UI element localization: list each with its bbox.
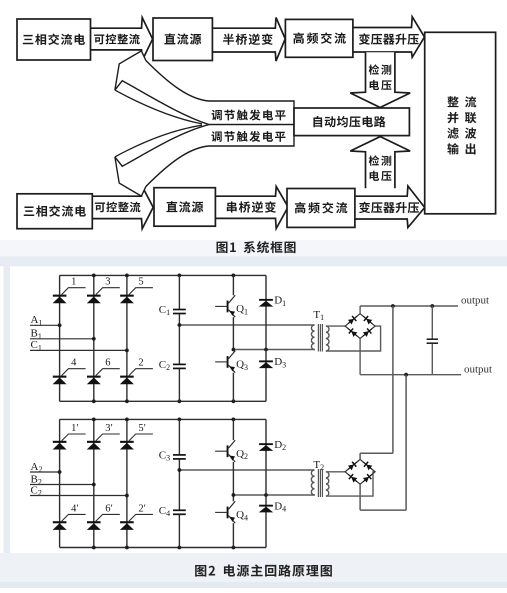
label 检测 (bottom arrow) [369, 155, 379, 165]
wire capacitor column (bridge 1) [178, 275, 180, 309]
svg-text:5′: 5′ [138, 423, 146, 434]
wire top rail (bridge 1) [60, 274, 266, 276]
transistor Q4 [215, 501, 248, 523]
wire thyristor leg 2 column (bridge 1) [93, 275, 95, 401]
ribbon arrow 调节触发电平 (to bottom rectifier) [115, 125, 294, 197]
label 自动均压电路 [313, 116, 322, 127]
bottom band [0, 582, 507, 588]
svg-text:1′: 1′ [71, 423, 79, 434]
label 检测 (top arrow) [369, 64, 379, 74]
label 并联 (tall box) [448, 112, 459, 123]
capacitor C2 [173, 363, 186, 365]
wire IGBT column (bridge 2) [232, 419, 234, 440]
svg-text:output: output [464, 364, 492, 376]
transistor Q2 [215, 440, 248, 462]
ribbon fold line (upper arrow) [115, 90, 202, 124]
capacitor C3 [173, 454, 186, 456]
thyristor 6 [87, 358, 120, 385]
box 三相交流电 (top row) [17, 19, 91, 60]
wire bridge 1 bottom output [359, 339, 361, 375]
svg-text:2: 2 [138, 358, 143, 369]
caption 图1 系统框图 [217, 242, 228, 254]
wire capacitor column (bridge 2) [178, 419, 180, 455]
ribbon arrow 调节触发电平 (to top rectifier) [115, 51, 294, 125]
diode D1 [259, 295, 286, 308]
label 直流源 (top) [164, 33, 175, 44]
label 电压 (bottom arrow) [370, 171, 379, 181]
wire parallel bus positive [392, 306, 394, 453]
thyristor 4 [53, 358, 86, 385]
wire bottom rail (bridge 1) [60, 400, 266, 402]
capacitor C1 [173, 309, 186, 311]
label 变压器升压 (bottom) [359, 202, 370, 213]
block arrow 可控整流 (top row) [91, 18, 153, 61]
wire thyristor leg 1 column (bridge 2) [59, 419, 61, 547]
box 直流源 (bottom row) [154, 188, 215, 227]
svg-text:4: 4 [71, 358, 77, 369]
wire diode column (bridge 2) [265, 419, 267, 547]
block arrow 检测电压 (downward) [350, 52, 410, 107]
wire secondary bottom return [326, 472, 375, 496]
wire IGBT midpoint node to transformer [233, 494, 315, 496]
caption 图2 电源主回路原理图 [195, 565, 206, 577]
wire thyristor leg 1 column (bridge 1) [59, 275, 61, 401]
wire IGBT column (bridge 1) [232, 275, 234, 295]
svg-text:4′: 4′ [71, 503, 79, 514]
box 整流并联滤波输出 [425, 32, 496, 214]
svg-text:3: 3 [105, 277, 110, 288]
wire bottom rail (bridge 2) [60, 547, 266, 549]
label 三相交流电 (bottom) [24, 207, 34, 216]
thyristor 4′ [53, 503, 86, 530]
box 三相交流电 (bottom row) [17, 194, 92, 229]
label 高频交流 (bottom) [295, 202, 306, 213]
ribbon fold line (lower arrow) [115, 125, 202, 157]
diode D3 [259, 356, 286, 369]
label 滤波 (tall box) [447, 127, 458, 138]
thyristor 2′ [120, 503, 153, 530]
wire top rail (bridge 2) [60, 418, 266, 420]
wire capacitor midpoint to transformer [179, 324, 314, 326]
label 变压器升压 (top) [359, 33, 370, 44]
svg-text:5: 5 [138, 277, 143, 288]
capacitor output filter [431, 306, 433, 339]
thyristor 6′ [87, 503, 120, 530]
label 可控整流 (top) [94, 35, 104, 45]
block arrow 串桥逆变 [215, 186, 288, 228]
wire parallel bus negative [405, 375, 407, 510]
svg-text:1: 1 [71, 277, 76, 288]
svg-text:6: 6 [105, 358, 110, 369]
caption band figure 1 [0, 240, 507, 256]
separator band below caption 1 [0, 256, 507, 266]
caption band figure 2 [0, 553, 507, 582]
block arrow 检测电压 (upward) [350, 137, 410, 189]
wire bridge 2 top output to bus [359, 453, 361, 459]
label 高频交流 (top) [293, 32, 304, 43]
junction dots on rails (bridge 2) [92, 418, 96, 422]
label 直流源 (bottom) [166, 201, 177, 212]
wire diode column (bridge 1) [265, 275, 267, 401]
label 整流 (tall box) [447, 96, 458, 107]
block arrow 变压器升压 (top row) [353, 17, 425, 58]
box 高频交流 (top row) [285, 19, 353, 57]
thyristor 1′ [53, 423, 86, 450]
rectifier bridge 2 [345, 459, 375, 484]
box 高频交流 (bottom row) [287, 189, 355, 228]
thyristor 3′ [87, 423, 120, 450]
label 半桥逆变 [223, 34, 234, 45]
wire secondary bottom return [326, 326, 381, 351]
wire thyristor leg 2 column (bridge 2) [93, 419, 95, 547]
thyristor 1 [53, 277, 86, 304]
svg-text:output: output [461, 295, 489, 307]
wire bridge 1 top output [359, 306, 361, 314]
thyristor 2 [120, 358, 153, 385]
diode D2 [259, 439, 286, 452]
capacitor C4 [173, 509, 186, 511]
svg-text:6′: 6′ [105, 503, 113, 514]
junction dots on rails (bridge 1) [92, 274, 96, 278]
box 自动均压电路 [294, 108, 409, 136]
block arrow 半桥逆变 [212, 18, 285, 62]
rectifier bridge 1 [345, 314, 375, 339]
wire secondary top to bridge [326, 471, 345, 473]
wire thyristor leg 3 column (bridge 2) [126, 419, 128, 547]
label 串桥逆变 [227, 201, 237, 212]
label 三相交流电 (top) [23, 35, 33, 44]
wire capacitor midpoint to transformer [179, 469, 314, 471]
wire secondary top to bridge [326, 325, 345, 327]
label 电压 (top arrow) [370, 80, 379, 90]
box 直流源 (top row) [153, 18, 212, 61]
diode D4 [259, 500, 286, 513]
wire thyristor leg 3 column (bridge 1) [126, 275, 128, 401]
label 调节触发电平 (lower) [211, 131, 221, 142]
svg-text:3′: 3′ [105, 423, 113, 434]
label 调节触发电平 (upper) [212, 110, 222, 121]
thyristor 5′ [120, 423, 153, 450]
svg-text:2′: 2′ [138, 503, 146, 514]
block arrow 变压器升压 (bottom row) [355, 186, 425, 228]
thyristor 3 [87, 277, 120, 304]
transistor Q3 [215, 351, 248, 373]
label 可控整流 (bottom) [95, 202, 105, 212]
wire IGBT midpoint node to transformer [233, 349, 315, 351]
thyristor 5 [120, 277, 153, 304]
block arrow 可控整流 (bottom row) [92, 187, 153, 229]
wire bridge 2 bottom output to bus [359, 484, 361, 510]
transistor Q1 [215, 295, 248, 317]
figure 2 left margin [4, 266, 11, 553]
label 输出 (tall box) [447, 143, 459, 154]
